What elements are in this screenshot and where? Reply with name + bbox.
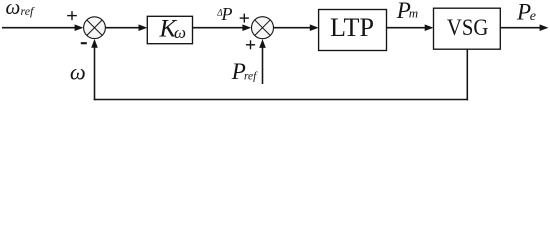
node P_ref label <box>231 59 258 84</box>
plus sign at S1 <box>67 11 77 20</box>
wire: P_ref vertical input <box>262 48 264 85</box>
block VSG <box>434 8 501 49</box>
wire: S1 to Kw block <box>106 27 140 29</box>
wire: feedback bottom horizontal <box>94 99 468 101</box>
svg-text:P: P <box>221 4 233 24</box>
svg-text:ω: ω <box>70 59 86 84</box>
arrowhead feedback into S1 <box>91 39 98 48</box>
summing junction S1 <box>84 17 106 39</box>
block LTP <box>319 10 387 51</box>
plus sign at S2 bottom input <box>246 40 255 49</box>
node omega_ref label <box>6 0 36 19</box>
svg-text:ω: ω <box>174 23 186 42</box>
wire: VSG output <box>500 27 540 29</box>
svg-text:VSG: VSG <box>447 15 489 40</box>
node P_e label <box>516 0 536 25</box>
node P_m label <box>396 0 418 23</box>
node deltaP label <box>216 4 232 24</box>
wire: LTP to VSG <box>387 27 426 29</box>
wire: feedback up into S1 <box>94 47 96 100</box>
block Kw <box>147 16 192 43</box>
svg-text:e: e <box>530 9 536 24</box>
summing junction S2 <box>252 17 274 39</box>
wire: omega_ref input <box>2 27 76 29</box>
svg-text:ref: ref <box>244 71 258 83</box>
label K_omega <box>159 15 187 42</box>
arrowhead output P_e <box>540 24 549 31</box>
arrowhead P_ref into S2 <box>259 39 266 48</box>
arrowhead into VSG block <box>425 24 434 31</box>
wire: S2 to LTP block <box>274 27 311 29</box>
svg-text:ref: ref <box>21 4 36 18</box>
svg-text:LTP: LTP <box>330 13 374 42</box>
arrowhead into summing junction S2 <box>242 24 251 31</box>
svg-text:ω: ω <box>6 0 21 19</box>
svg-text:m: m <box>409 6 418 21</box>
wire: Kw to summing junction S2 <box>193 27 244 29</box>
arrowhead into LTP block <box>310 24 319 31</box>
arrowhead into summing junction S1 <box>75 24 84 31</box>
wire: feedback from VSG bottom down <box>466 49 468 100</box>
arrowhead into Kw block <box>139 24 148 31</box>
plus sign at S2 top input <box>240 14 249 23</box>
svg-text:P: P <box>516 0 531 25</box>
minus sign at S1 <box>81 42 87 44</box>
